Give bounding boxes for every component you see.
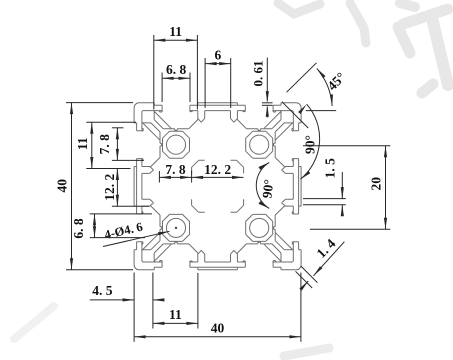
watermark streak bottom right bbox=[284, 348, 329, 356]
svg-text:90°: 90° bbox=[259, 179, 276, 200]
dimension 4-diameter-4.6 holes leader bbox=[103, 220, 170, 247]
dimension 7.8 left bbox=[97, 128, 144, 161]
hole bottom-right diameter 4.6 bbox=[250, 218, 269, 237]
profile outline 40x40 extrusion bbox=[134, 103, 301, 270]
svg-text:11: 11 bbox=[169, 24, 182, 39]
dimension 11 left slot cavity bbox=[75, 122, 136, 168]
dimension 6.8 left bbox=[71, 214, 152, 239]
svg-text:12. 2: 12. 2 bbox=[204, 162, 231, 177]
svg-text:40: 40 bbox=[54, 179, 69, 193]
hole bottom-left diameter 4.6 bbox=[166, 218, 185, 237]
hole top-left diameter 4.6 bbox=[166, 135, 185, 154]
hole top-right diameter 4.6 bbox=[250, 135, 269, 154]
dimension 45 degree corner chamfer angle bbox=[282, 63, 348, 128]
dimension 6.8 top slot opening width bbox=[162, 62, 190, 102]
svg-text:6: 6 bbox=[215, 47, 222, 62]
svg-text:90°: 90° bbox=[303, 135, 318, 154]
watermark character strokes top right bbox=[398, 3, 448, 93]
dimension 0.61 lip step bbox=[251, 58, 273, 118]
dimension 40 overall width bottom bbox=[134, 273, 301, 342]
dimension 11 top slot cavity width bbox=[154, 24, 198, 110]
svg-text:11: 11 bbox=[169, 307, 182, 322]
svg-text:7. 8: 7. 8 bbox=[165, 162, 186, 177]
svg-text:6. 8: 6. 8 bbox=[71, 218, 86, 239]
watermark streak bottom left bbox=[14, 306, 54, 339]
dimension 12.2 left bbox=[102, 169, 149, 207]
svg-text:20: 20 bbox=[369, 177, 384, 191]
slot lip beads bbox=[142, 111, 293, 262]
dimension 12.2 center cavity width bbox=[192, 162, 244, 179]
dimension 90 degree right slot angle bbox=[298, 104, 320, 179]
dimension 90 degree center cavity angle bbox=[256, 162, 276, 208]
svg-text:4. 5: 4. 5 bbox=[92, 283, 113, 298]
dimension 4.5 bottom left edge bbox=[90, 273, 165, 306]
center mark bottom-left hole bbox=[175, 227, 177, 229]
svg-text:11: 11 bbox=[75, 137, 90, 150]
svg-text:6. 8: 6. 8 bbox=[166, 62, 187, 77]
dimension 1.4 corner wall thickness bbox=[296, 236, 345, 291]
dimension 1.5 wall thickness right bbox=[303, 158, 346, 216]
svg-text:12. 2: 12. 2 bbox=[102, 173, 117, 200]
svg-text:40: 40 bbox=[211, 321, 225, 336]
svg-text:0. 61: 0. 61 bbox=[251, 61, 266, 87]
dimension 6 center channel width bbox=[205, 47, 231, 108]
dimension 11 bottom slot cavity bbox=[153, 273, 198, 329]
dimension 7.8 slot bottom to center cavity bbox=[159, 162, 191, 183]
profile rounded corners bbox=[134, 103, 301, 270]
dimension 40 overall height left bbox=[54, 103, 133, 270]
dimension 20 hole pitch right bbox=[303, 146, 390, 229]
svg-text:1. 5: 1. 5 bbox=[322, 158, 337, 179]
watermark chevron stroke top center bbox=[278, 3, 366, 43]
svg-text:7. 8: 7. 8 bbox=[97, 134, 112, 155]
